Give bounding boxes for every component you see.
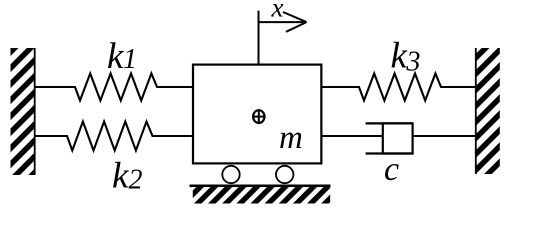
wheel right	[276, 166, 293, 183]
svg-text:2: 2	[129, 165, 143, 196]
svg-text:x: x	[271, 0, 284, 23]
svg-text:k: k	[112, 156, 129, 197]
ground	[190, 186, 331, 204]
damper c	[322, 123, 476, 153]
center-of-mass marker	[252, 109, 265, 123]
svg-text:k: k	[107, 36, 124, 77]
svg-text:c: c	[384, 151, 399, 188]
right wall	[476, 48, 500, 174]
spring k2	[35, 122, 193, 151]
coordinate arrow x	[259, 11, 307, 64]
spring k1	[35, 74, 193, 101]
svg-text:m: m	[279, 120, 303, 156]
mass block m	[193, 65, 321, 164]
left wall	[11, 48, 35, 175]
svg-text:3: 3	[406, 47, 421, 78]
spring k3	[322, 74, 476, 101]
svg-text:k: k	[391, 36, 408, 77]
wheel left	[222, 166, 239, 183]
svg-text:1: 1	[123, 44, 137, 75]
